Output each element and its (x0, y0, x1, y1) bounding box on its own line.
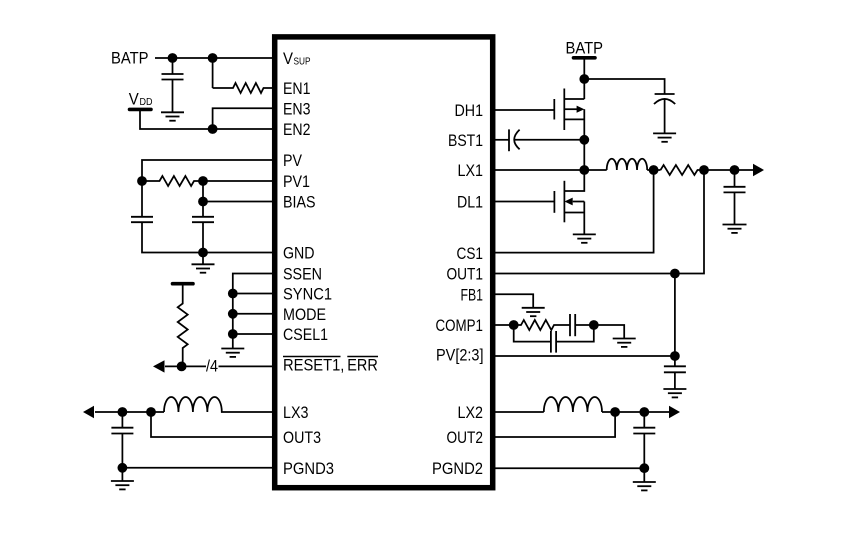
wire CSEL1 (233, 333, 274, 335)
wire comp parallel branch right (556, 325, 594, 342)
ground under C10 (663, 389, 686, 397)
junction dot BST1/source (579, 135, 589, 145)
capacitor C11 (OUT2 cap) (633, 428, 655, 434)
ground under C7 (723, 225, 747, 233)
svg-text:OUT1: OUT1 (447, 265, 484, 284)
junction dot PGND2 (639, 463, 649, 473)
ground PGND3 (111, 481, 134, 489)
wire EN1 feed vertical (212, 58, 214, 88)
inductor L3 (164, 397, 274, 412)
IC U1 body (275, 37, 493, 488)
wire COMP1 from IC (495, 324, 514, 326)
capacitor C4 (OUT3 cap) (111, 428, 133, 434)
wire C3 bottom to GND line (202, 222, 204, 252)
junction dot BATP cap tap (168, 53, 178, 63)
svg-text:BIAS: BIAS (283, 193, 316, 212)
resistor R4 (current sense) (661, 165, 705, 175)
wire EN3 down to EN2 (213, 108, 274, 129)
arrow VOUT1 (753, 164, 764, 177)
ground under C1 (161, 112, 184, 120)
transistor Q2 low-side NMOS (554, 170, 584, 234)
inductor L2 (544, 397, 602, 412)
svg-text:PGND2: PGND2 (432, 459, 483, 478)
junction dot PGND3 (118, 463, 128, 473)
arrow RESET1 bus left (153, 360, 165, 372)
junction dot LX2 out2 tap (610, 407, 620, 417)
wire MODE (233, 313, 274, 315)
svg-text:MODE: MODE (283, 305, 326, 324)
resistor R5 (compensation) (514, 320, 570, 330)
svg-text:DD: DD (140, 96, 153, 108)
junction dot out cap tap (730, 165, 740, 175)
svg-text:PV[2:3]: PV[2:3] (436, 346, 484, 365)
junction dot PV1 right (198, 176, 208, 186)
svg-text:PV: PV (283, 151, 303, 170)
wire RESET1 left with arrow (165, 365, 206, 367)
resistor R3 (RESET1 pull-up) (178, 286, 188, 367)
capacitor C7 (OUT1 cap) (724, 187, 746, 193)
svg-text:RESET1,: RESET1, (283, 356, 344, 375)
wire BST1 lead to cap (495, 139, 509, 141)
wire VDD to EN2 (140, 111, 274, 129)
junction dot L1/CS1 (649, 165, 659, 175)
svg-text:GND: GND (283, 244, 315, 263)
capacitor C6 (bootstrap, polarized) (509, 129, 520, 151)
junction dot BIAS (198, 197, 208, 207)
ground under GND pin (192, 264, 215, 272)
svg-text:V: V (129, 89, 140, 108)
wire SSEN chain (233, 274, 274, 349)
junction dot RESET1 node (177, 362, 187, 372)
wire VOUT1 to arrow (704, 169, 753, 171)
junction dot COMP1 right (589, 320, 599, 330)
wire BATP to input cap (584, 79, 664, 94)
wire OUT1 down to PV[2:3] (674, 274, 676, 367)
svg-text:EN3: EN3 (283, 100, 311, 119)
ground under Q2 source (573, 234, 596, 242)
ground under FB1 (522, 308, 545, 316)
svg-text:BST1: BST1 (448, 131, 483, 150)
junction dot SYNC1 (228, 289, 238, 299)
wire DH1 gate (495, 109, 554, 111)
svg-text:SYNC1: SYNC1 (283, 285, 332, 304)
arrow LX3 output (83, 406, 94, 419)
supply VDD label (129, 89, 153, 108)
junction dot LX3 cap tap (118, 407, 128, 417)
wire PGND2 to IC (495, 467, 644, 469)
svg-text:EN1: EN1 (283, 79, 311, 98)
junction dot EN2/EN3 (208, 124, 218, 134)
supply BATP bar right (574, 56, 596, 60)
svg-text:SUP: SUP (294, 56, 311, 68)
junction dot PV[2:3] (670, 351, 680, 361)
wire BST1 cap to LX node (515, 139, 585, 141)
resistor R2 (PV1 filter) (142, 176, 203, 186)
svg-text:EN2: EN2 (283, 120, 311, 139)
junction dot CSEL1 (228, 329, 238, 339)
junction dot EN1 feed tap (208, 53, 218, 63)
wire FB1 to ground (495, 294, 533, 308)
wire OUT3 feedback (151, 412, 274, 437)
wire PV1 to IC (203, 180, 274, 182)
wire C8 to right node (575, 325, 624, 339)
capacitor C5 (BATP input cap right, polarized) (654, 94, 675, 104)
transistor Q1 high-side NMOS (554, 89, 584, 171)
ground comp network (613, 339, 636, 347)
wire C5 bottom lead (664, 99, 666, 133)
wire GND stub to ground (202, 253, 204, 265)
capacitor C2 (PV cap left) (131, 217, 153, 222)
junction dot BATP node (579, 74, 589, 84)
svg-text:BATP: BATP (566, 38, 604, 57)
wire C4 bottom to PGND3 (121, 434, 123, 482)
junction dot LX3 out3 tap (146, 407, 156, 417)
junction dot COMP1 left (509, 320, 519, 330)
svg-text:PGND3: PGND3 (283, 459, 334, 478)
wire C7 bottom lead (734, 192, 736, 224)
wire cap C1 top lead (172, 58, 174, 74)
junction dot LX2 cap tap (639, 407, 649, 417)
junction dot MODE (228, 309, 238, 319)
svg-text:PV1: PV1 (283, 172, 310, 191)
junction dot LX1 node (579, 165, 589, 175)
ground under C5 (653, 133, 676, 141)
inductor L1 (607, 159, 647, 170)
junction dot sense/out (699, 165, 709, 175)
svg-text:/4: /4 (206, 357, 218, 376)
svg-text:DL1: DL1 (457, 193, 483, 212)
svg-text:CS1: CS1 (457, 244, 484, 263)
wire BIAS rail vertical (202, 181, 204, 217)
wire C11 bottom to PGND2 (643, 434, 645, 483)
junction dot PV1 left (137, 176, 147, 186)
wire CS1 to sense node (495, 170, 654, 253)
wire OUT1 to output node (495, 170, 704, 274)
ground PGND2 (633, 482, 656, 490)
wire BATP rail down to FET drain (583, 60, 585, 100)
svg-text:ERR: ERR (347, 356, 378, 375)
wire BIAS to IC (203, 201, 274, 203)
wire out cap top lead (734, 170, 736, 187)
capacitor C10 (PV[2:3] cap) (664, 366, 686, 372)
wire cap C1 bottom lead (172, 80, 174, 113)
wire LX2 from IC (495, 411, 544, 413)
supply bar for RESET pull-up (173, 282, 194, 286)
junction dot GND node (198, 248, 208, 258)
resistor R1 (EN1 pull-up) (213, 83, 274, 93)
svg-text:OUT3: OUT3 (283, 428, 321, 447)
svg-text:LX3: LX3 (283, 403, 309, 422)
svg-text:V: V (283, 49, 294, 68)
wire C10 bottom lead (674, 372, 676, 389)
wire PGND3 to IC (122, 467, 274, 469)
svg-text:SSEN: SSEN (283, 265, 322, 284)
ground under CSEL1 chain (221, 349, 244, 357)
capacitor C9 (comp parallel) (551, 331, 556, 353)
svg-text:LX1: LX1 (458, 161, 484, 180)
svg-text:DH1: DH1 (455, 101, 484, 120)
svg-text:BATP: BATP (111, 48, 149, 67)
capacitor C8 (comp series) (570, 314, 575, 336)
wire PV[2:3] to cap (495, 355, 675, 357)
wire DL1 gate (495, 201, 554, 203)
supply VDD bar (130, 108, 152, 112)
svg-text:COMP1: COMP1 (436, 316, 484, 335)
wire LX2 cap top lead (643, 412, 645, 428)
capacitor C1 (BATP input cap) (162, 74, 184, 80)
pin label VSUP (283, 49, 311, 68)
pin label RESET1, ERR with overlines (283, 356, 378, 375)
wire LX3 cap top lead (121, 412, 123, 428)
wire C2 bottom to GND line (142, 222, 274, 252)
wire PV to left rail (142, 160, 274, 217)
arrow VOUT2 (669, 406, 680, 419)
wire SYNC1 (233, 293, 274, 295)
svg-text:CSEL1: CSEL1 (283, 325, 328, 344)
wire BATP to VSUP (155, 57, 274, 59)
svg-text:LX2: LX2 (458, 403, 484, 422)
wire OUT2 feedback (495, 412, 615, 437)
wire L2 to output arrow (602, 411, 669, 413)
wire LX1 from IC (495, 169, 607, 171)
capacitor C3 (BIAS cap) (192, 217, 214, 222)
wire LX3 output left with arrow lead (95, 411, 164, 413)
wire RESET1 to IC (219, 365, 275, 367)
wire L1 to sense resistor (647, 169, 660, 171)
wire comp parallel branch left (514, 325, 551, 342)
svg-text:FB1: FB1 (461, 286, 484, 305)
svg-text:OUT2: OUT2 (447, 428, 484, 447)
junction dot OUT1/PV tap (670, 269, 680, 279)
